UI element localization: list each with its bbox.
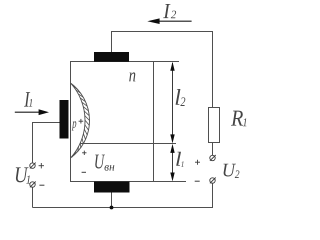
label U2 xyxy=(224,164,237,177)
dimension extension line middle xyxy=(81,143,177,145)
current arrow I1 xyxy=(15,111,40,113)
terminal U1 plus xyxy=(30,163,36,169)
n-type body rectangle xyxy=(71,62,154,182)
terminal U2 minus xyxy=(210,178,216,184)
wire: U1 top terminal up and right to emitter contact xyxy=(33,123,60,163)
dimension l2 line and arrowheads xyxy=(172,63,174,142)
contact emitter (left black bar) xyxy=(60,100,69,139)
label l1 xyxy=(176,152,181,166)
terminal U2 plus xyxy=(210,155,216,161)
polarity plus at U2 xyxy=(195,160,200,165)
dimension extension line bottom xyxy=(154,181,187,183)
polarity plus above U vn xyxy=(82,151,86,155)
dimension l1 line and arrowheads xyxy=(172,146,174,180)
resistor R1 xyxy=(209,108,220,143)
junction node dot on bottom bus xyxy=(110,206,114,210)
label l2 xyxy=(176,89,181,105)
label R1 xyxy=(231,111,243,126)
polarity plus at U1 xyxy=(39,163,44,168)
p-n junction lens (outer and inner arcs) xyxy=(71,83,90,158)
wire: base2 contact up and right to R1 xyxy=(112,32,213,108)
contact base2 (top black bar) xyxy=(94,52,129,62)
label p+ (emitter region) xyxy=(72,121,77,130)
label I1 xyxy=(24,92,30,107)
current arrow I2 xyxy=(159,20,192,22)
terminal U1 minus xyxy=(30,182,36,188)
label n (body region) xyxy=(129,72,135,81)
dimension extension line top xyxy=(154,61,180,63)
label U vn (internal junction voltage) xyxy=(95,155,105,169)
polarity minus below U vn xyxy=(82,171,86,173)
plus superscript of p xyxy=(79,119,84,124)
label I2 xyxy=(163,4,170,18)
polarity minus at U1 xyxy=(39,184,44,186)
wire: U2 bottom terminal down and left along bottom bus xyxy=(33,183,213,207)
contact base1 (bottom black bar) xyxy=(94,182,130,193)
wire: bottom bus up to U1 bottom terminal xyxy=(32,187,34,207)
polarity minus at U2 xyxy=(195,180,200,182)
label U1 xyxy=(16,167,29,182)
wire: base1 contact down to bottom bus xyxy=(111,192,113,208)
wire: R1 bottom to U2 top terminal xyxy=(212,143,214,156)
junction hatching xyxy=(71,84,89,158)
